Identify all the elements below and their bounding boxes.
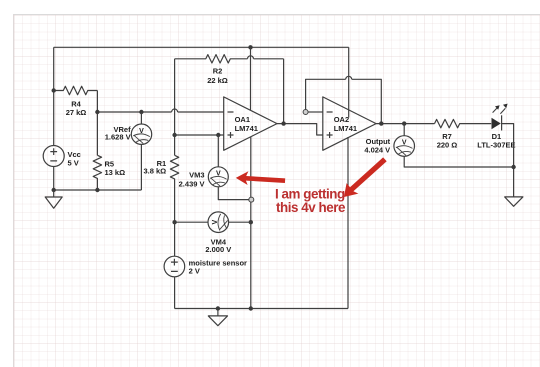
- svg-text:13 kΩ: 13 kΩ: [105, 168, 126, 177]
- node junction VM4 right: [249, 220, 253, 224]
- node junction R4/R5/VRef wire: [95, 110, 99, 114]
- svg-text:27 kΩ: 27 kΩ: [66, 108, 87, 117]
- svg-text:this 4v here: this 4v here: [276, 200, 345, 215]
- node junction OA1 output / R2: [281, 121, 285, 125]
- svg-text:1.628 V: 1.628 V: [105, 132, 131, 141]
- svg-text:220 Ω: 220 Ω: [437, 140, 458, 149]
- svg-text:4.024 V: 4.024 V: [364, 146, 390, 155]
- op-amp OA2: [323, 97, 376, 150]
- node terminal (open) OA2 minus: [303, 110, 308, 115]
- svg-text:VM3: VM3: [189, 171, 204, 180]
- wire OA1 output to OA2 plus input: [277, 124, 323, 135]
- svg-text:LM741: LM741: [235, 124, 258, 133]
- voltmeter VM4: [175, 212, 251, 233]
- node junction Vcc/ground: [52, 188, 56, 192]
- node terminal (open) VM3 bottom node: [249, 197, 254, 202]
- wire OA2 V- pin down to bottom rail: [347, 137, 349, 309]
- svg-text:2.439 V: 2.439 V: [179, 180, 205, 189]
- svg-text:LTL-307EE: LTL-307EE: [477, 141, 515, 150]
- svg-text:R2: R2: [213, 67, 223, 76]
- wire bottom rail: [175, 308, 348, 310]
- ground (bottom centre): [208, 309, 227, 326]
- wire R2 left vertical branch: [174, 59, 176, 156]
- annotation arrow 2 (pointing at OA2 V- wire): [344, 157, 387, 197]
- node junction bottom rail / VM4 vertical: [249, 306, 253, 310]
- resistor R5: [93, 155, 101, 190]
- node junction R5 bottom: [95, 188, 99, 192]
- wire bottom-left rail: [54, 189, 142, 191]
- svg-text:LM741: LM741: [334, 124, 357, 133]
- resistor R1: [170, 155, 178, 222]
- wire OA1 plus-input from vertical: [175, 134, 224, 136]
- voltmeter VM3: [208, 135, 248, 200]
- node junction output voltmeter tap: [402, 121, 406, 125]
- ground (left, below Vcc): [45, 190, 62, 208]
- node junction VM4 left on vertical: [172, 220, 176, 224]
- wire top V+ rail: [54, 46, 349, 48]
- wire OA1 V- pin down to bottom rail: [250, 137, 252, 309]
- svg-text:2.000 V: 2.000 V: [205, 245, 231, 254]
- node junction bottom rail / ground: [216, 306, 220, 310]
- node junction VRef top: [139, 110, 143, 114]
- svg-text:5 V: 5 V: [68, 159, 79, 168]
- svg-text:OA2: OA2: [334, 115, 349, 124]
- wire to OA1 inverting input (with hop over vertical): [97, 109, 223, 112]
- svg-text:2 V: 2 V: [189, 266, 200, 275]
- node junction VM3 top: [216, 133, 220, 137]
- wire R4 right down to R5: [96, 91, 98, 156]
- wire OA2 V+ pin from top rail: [348, 47, 350, 117]
- wire OA2 output: [376, 123, 434, 125]
- wire OA1 V+ pin: [250, 47, 252, 110]
- voltage source Vcc: [43, 146, 64, 167]
- ground (right): [505, 197, 523, 206]
- wire OA2 minus input: [308, 111, 323, 113]
- resistor R7: [435, 119, 492, 127]
- voltage source moisture sensor: [164, 222, 185, 308]
- svg-text:22 kΩ: 22 kΩ: [207, 76, 228, 85]
- svg-text:Output: Output: [366, 137, 391, 146]
- node junction feedback / output: [379, 121, 383, 125]
- annotation arrow 1 (pointing at VM3): [236, 171, 285, 185]
- LED D1: [492, 104, 508, 131]
- node junction output meter return: [511, 165, 515, 169]
- op-amp OA1: [224, 97, 277, 150]
- wire LED to ground: [502, 124, 514, 197]
- voltmeter Output: [394, 124, 514, 167]
- wire OA2 feedback (minus node up and over to output, hop over V+ wire): [306, 76, 382, 123]
- resistor R4: [54, 86, 98, 94]
- resistor R2: [175, 55, 284, 63]
- node junction top rail / OA1 V+: [248, 45, 252, 49]
- wire R2 right down to OA1 output: [283, 59, 285, 124]
- svg-text:OA1: OA1: [235, 115, 250, 124]
- voltmeter VRef: [131, 112, 151, 190]
- svg-text:3.8 kΩ: 3.8 kΩ: [143, 167, 166, 176]
- node junction plus-input wire on vertical: [172, 133, 176, 137]
- wire left supply rail (top-left corner to Vcc top): [53, 47, 55, 145]
- node junction R4 left on rail: [52, 88, 56, 92]
- wire Vcc bottom to ground rail: [53, 167, 55, 191]
